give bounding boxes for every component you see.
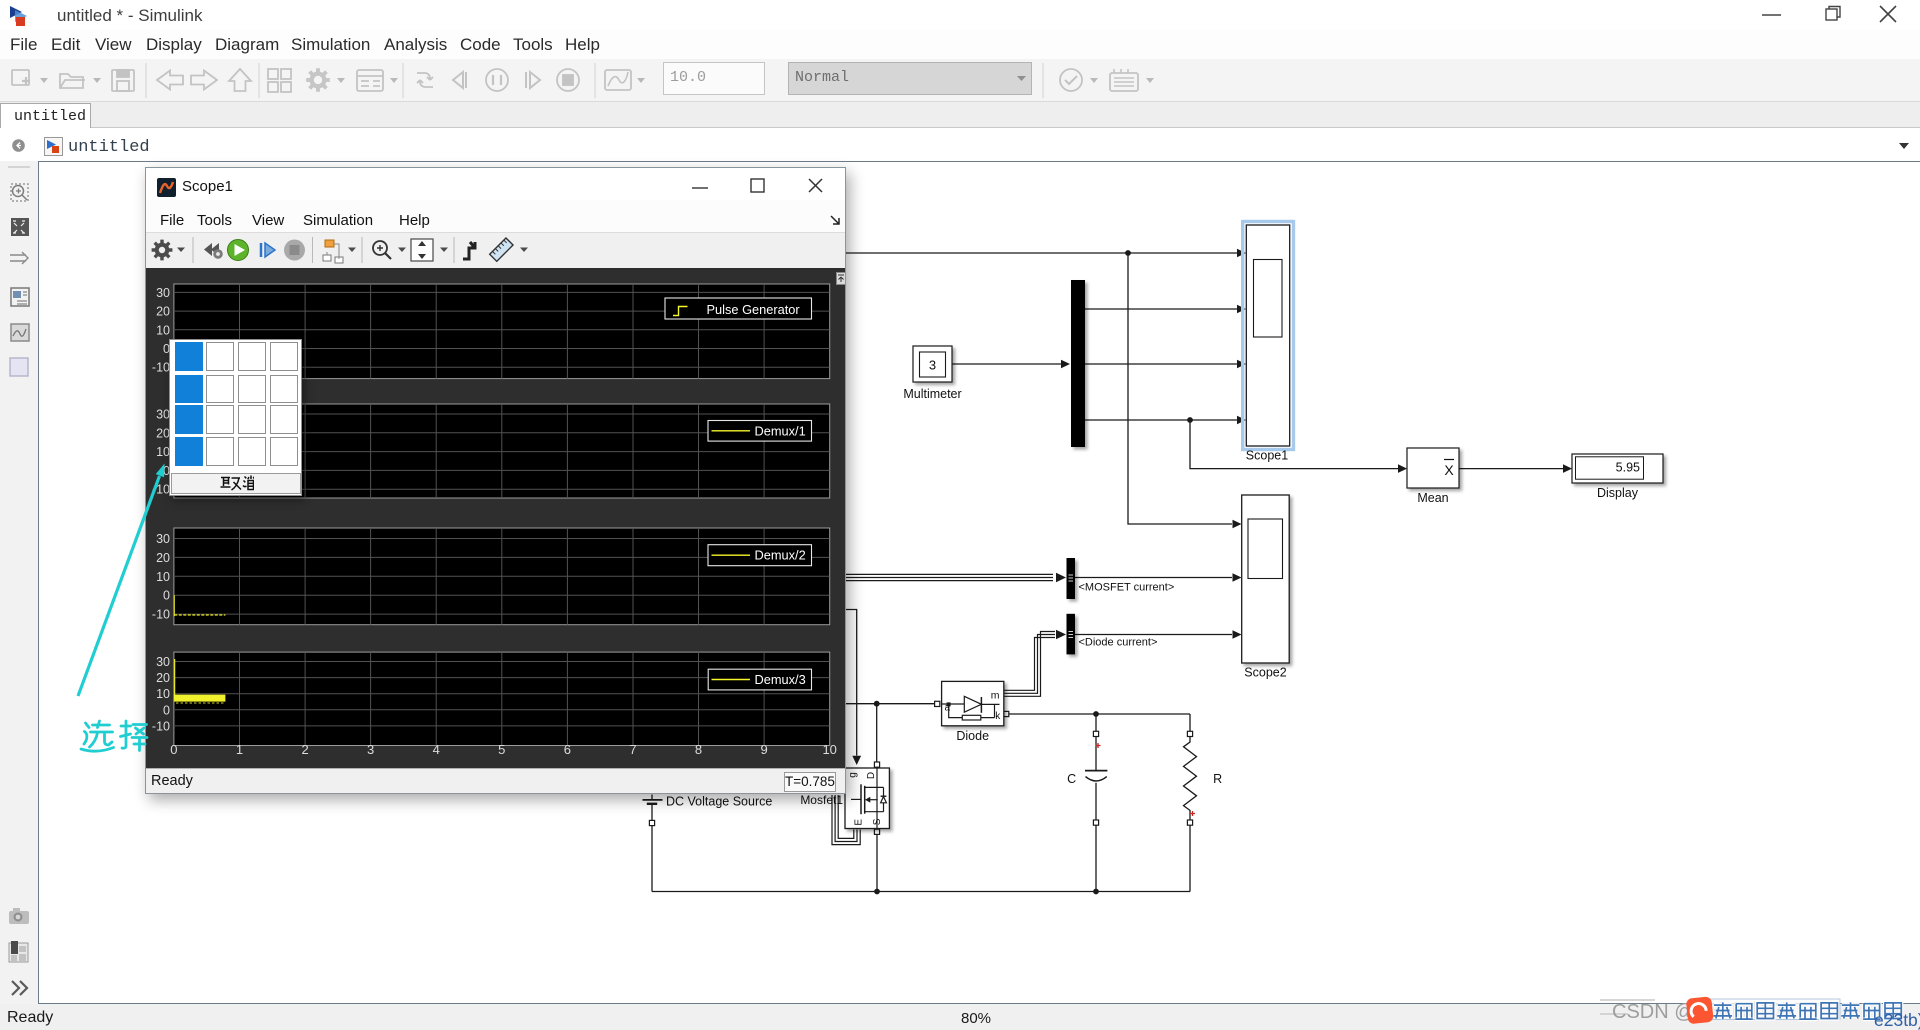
svg-text:e23tb): e23tb)	[1874, 1010, 1920, 1030]
svg-text:CSDN @: CSDN @	[1612, 1001, 1695, 1023]
